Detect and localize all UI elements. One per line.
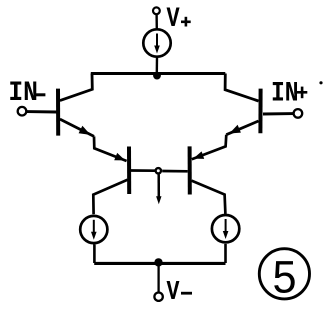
svg-text:IN: IN: [271, 77, 299, 109]
svg-text:5: 5: [272, 253, 296, 303]
svg-text:IN: IN: [8, 77, 38, 109]
svg-text:V: V: [166, 3, 180, 35]
svg-text:V: V: [167, 278, 180, 308]
